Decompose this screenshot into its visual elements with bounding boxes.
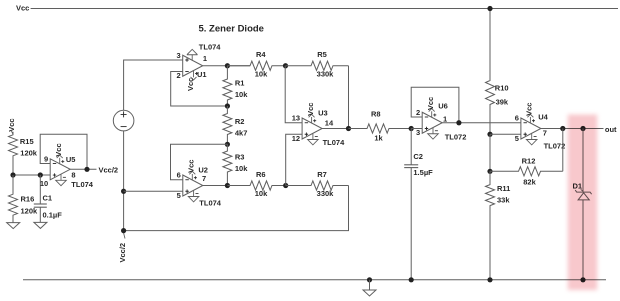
op-amp U5: [40, 143, 94, 189]
resistor R11: [486, 171, 511, 279]
wire U3 output: [322, 128, 350, 130]
junction U2 pin5 tap: [121, 189, 126, 194]
svg-text:C2: C2: [413, 152, 423, 161]
junction rail C2: [409, 277, 414, 282]
svg-text:10: 10: [40, 179, 48, 188]
resistor R3: [223, 144, 248, 185]
svg-text:3: 3: [416, 128, 420, 137]
junction Vcc/2 label: [121, 228, 126, 233]
ground below R16: [7, 223, 20, 229]
wire ground rail: [23, 279, 606, 281]
wire source top to U1 pin 3: [124, 60, 183, 110]
junction rail ground: [367, 277, 372, 282]
svg-text:R10: R10: [495, 83, 509, 92]
svg-text:Vcc: Vcc: [525, 103, 534, 116]
svg-text:C1: C1: [43, 193, 53, 202]
svg-text:R7: R7: [317, 170, 327, 179]
svg-text:Vcc: Vcc: [306, 103, 315, 116]
svg-text:Vcc: Vcc: [186, 78, 195, 91]
junction rail R11: [487, 277, 492, 282]
svg-text:R6: R6: [256, 170, 266, 179]
svg-text:39k: 39k: [496, 97, 509, 106]
svg-text:1: 1: [203, 54, 207, 63]
svg-text:TL074: TL074: [323, 138, 346, 147]
svg-text:14: 14: [325, 118, 334, 127]
svg-text:330k: 330k: [317, 189, 335, 198]
junction rail D1: [580, 277, 585, 282]
wire Vcc rail: [31, 8, 618, 10]
svg-text:9: 9: [44, 154, 48, 163]
resistor R12: [490, 156, 563, 186]
svg-text:Vcc: Vcc: [187, 160, 196, 173]
junction R4-R5: [283, 63, 288, 68]
resistor R6: [227, 170, 285, 198]
ground symbol on rail: [363, 280, 376, 296]
svg-text:5. Zener Diode: 5. Zener Diode: [199, 23, 264, 34]
junction U6 output: [456, 120, 461, 125]
wire U2 pin 5 to Vcc/2: [124, 190, 183, 192]
svg-text:8: 8: [71, 170, 75, 179]
wire U6 pin 3: [411, 128, 422, 130]
wire U2 output row: [203, 185, 250, 187]
svg-text:R8: R8: [371, 110, 381, 119]
wire Vcc/2 bottom run: [124, 186, 349, 231]
wire U2 feedback: [171, 144, 228, 179]
svg-text:R2: R2: [235, 117, 245, 126]
wire R10-R11 link: [489, 134, 491, 184]
svg-text:U6: U6: [438, 101, 448, 110]
svg-text:7: 7: [543, 128, 547, 137]
svg-text:Vcc/2: Vcc/2: [118, 243, 127, 263]
wire R12 up to output: [562, 129, 564, 172]
svg-text:1.5µF: 1.5µF: [413, 168, 433, 177]
svg-text:U4: U4: [538, 112, 548, 121]
resistor R10: [486, 80, 509, 134]
resistor R7: [286, 170, 349, 198]
capacitor C2: [404, 129, 433, 280]
svg-text:6: 6: [177, 171, 181, 180]
svg-text:13: 13: [292, 114, 300, 123]
wire U5 feedback loop: [40, 134, 87, 169]
svg-text:5: 5: [515, 134, 519, 143]
wire divider row to U5 pin 10: [13, 174, 50, 176]
junction R2-R3: [225, 142, 230, 147]
svg-text:82k: 82k: [523, 177, 536, 186]
svg-text:10k: 10k: [235, 90, 248, 99]
wire U1 output row: [203, 65, 250, 67]
junction R6-R7: [283, 183, 288, 188]
junction R12 feedback: [560, 126, 565, 131]
voltage source V1: [113, 110, 134, 131]
junction R3 bottom: [225, 183, 230, 188]
node Vcc (top rail label): [16, 4, 29, 13]
svg-text:33k: 33k: [497, 196, 510, 205]
op-amp U6: [416, 97, 466, 142]
junction divider: [10, 172, 15, 177]
svg-text:U3: U3: [318, 109, 328, 118]
svg-text:R3: R3: [235, 152, 245, 161]
svg-text:1: 1: [443, 114, 447, 123]
wire U6 output to U4 pin 6: [442, 122, 521, 124]
junction D1 tap: [580, 126, 585, 131]
svg-text:R12: R12: [522, 156, 536, 165]
node Vcc (left label): [7, 118, 16, 134]
svg-text:10k: 10k: [255, 69, 268, 78]
resistor R16: [9, 175, 39, 223]
svg-text:2: 2: [416, 108, 420, 117]
svg-text:Vcc: Vcc: [54, 143, 63, 156]
svg-text:TL072: TL072: [544, 141, 566, 150]
svg-text:Vcc: Vcc: [426, 97, 435, 110]
junction R1-R2: [225, 103, 230, 108]
node out label: [605, 125, 617, 134]
wire D1 bottom: [582, 200, 584, 280]
resistor R1: [223, 66, 248, 106]
resistor R2: [223, 106, 248, 144]
svg-text:7: 7: [202, 174, 206, 183]
svg-text:R4: R4: [256, 50, 266, 59]
wire source bottom / Vcc2 column: [123, 131, 125, 231]
svg-text:U1: U1: [197, 70, 207, 79]
svg-text:TL074: TL074: [71, 180, 94, 189]
junction C1 tap: [38, 172, 43, 177]
svg-text:12: 12: [292, 134, 300, 143]
node Vcc/2 at U5 output: [99, 165, 119, 174]
svg-text:out: out: [605, 125, 617, 134]
resistor R5: [286, 50, 349, 78]
svg-text:2: 2: [177, 71, 181, 80]
highlight band overlay around D1: [568, 115, 597, 291]
wire R10 drop: [489, 9, 491, 81]
wire D1 top: [582, 129, 584, 192]
wire U4 output to out: [541, 128, 604, 130]
svg-text:10k: 10k: [235, 164, 248, 173]
svg-text:Vcc: Vcc: [16, 4, 29, 13]
svg-text:R11: R11: [497, 184, 510, 193]
svg-text:TL072: TL072: [445, 133, 467, 142]
svg-text:Vcc/2: Vcc/2: [99, 165, 119, 174]
junction U5 output: [84, 167, 89, 172]
resistor R4: [227, 50, 285, 78]
svg-text:120k: 120k: [20, 149, 38, 158]
svg-text:R15: R15: [20, 137, 34, 146]
svg-text:R16: R16: [21, 195, 35, 204]
svg-text:R1: R1: [235, 78, 245, 87]
title: [199, 23, 264, 34]
op-amp U4: [515, 103, 566, 151]
wire U3 pin 12: [286, 134, 302, 185]
svg-text:330k: 330k: [317, 69, 335, 78]
junction R8-C2-U6: [409, 126, 414, 131]
svg-text:U5: U5: [66, 155, 76, 164]
svg-text:TL074: TL074: [199, 43, 222, 52]
svg-text:5: 5: [177, 191, 181, 200]
resistor R8: [349, 110, 412, 143]
node Vcc/2 (bottom label): [118, 233, 127, 263]
junction R1 top: [225, 63, 230, 68]
resistor R15: [9, 132, 38, 175]
op-amp U1: [177, 43, 222, 91]
wire U5 output: [70, 168, 96, 170]
junction U4 pin5 tap: [487, 132, 492, 137]
svg-text:1k: 1k: [374, 133, 383, 142]
op-amp U3: [292, 103, 345, 147]
svg-text:6: 6: [515, 114, 519, 123]
wire U3 pin 13: [285, 66, 302, 123]
svg-text:10k: 10k: [255, 189, 268, 198]
svg-text:TL074: TL074: [199, 198, 222, 207]
svg-text:U2: U2: [198, 165, 208, 174]
ground below C1: [34, 222, 47, 228]
wire U6 feedback: [411, 87, 459, 122]
diode D1 (zener): [573, 182, 592, 200]
svg-text:Vcc: Vcc: [7, 118, 16, 131]
svg-text:0.1µF: 0.1µF: [43, 210, 63, 219]
junction Vcc rail R10: [487, 6, 492, 11]
svg-text:R5: R5: [317, 50, 327, 59]
junction R12 tap: [487, 169, 492, 174]
wire U1 feedback: [171, 72, 228, 107]
capacitor C1: [34, 175, 62, 222]
junction U3 output: [346, 126, 351, 131]
svg-text:3: 3: [177, 51, 181, 60]
wire R5 to U3 output node: [348, 66, 350, 129]
op-amp U2: [177, 160, 222, 208]
svg-text:4k7: 4k7: [235, 129, 248, 138]
wire U4 pin 5: [490, 133, 521, 135]
